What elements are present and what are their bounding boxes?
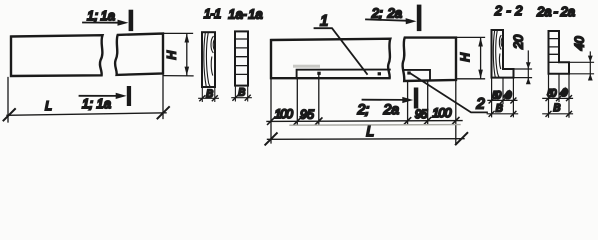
svg-text:2a: 2a xyxy=(560,4,575,19)
section 1-1 wood grain xyxy=(204,33,215,87)
beam 1 L dimension: corner ticks xyxy=(4,107,170,121)
svg-text:В: В xyxy=(238,86,245,98)
svg-text:L: L xyxy=(366,123,374,139)
section mark 2;2a bottom: bar xyxy=(414,88,419,109)
section 1a-1a outline xyxy=(235,31,248,85)
beam 2 L dimension: corner ticks xyxy=(265,133,467,145)
beam 2 L dimension: dim line xyxy=(268,138,465,141)
section 2a-2a dim 40: dim line xyxy=(589,52,591,77)
section 1a-1a lamination lines xyxy=(235,39,248,74)
beam 1 left part outline xyxy=(11,35,103,76)
section 2-2 outline (L shape) xyxy=(492,30,514,78)
section 2-2 wood grain xyxy=(493,31,502,77)
section mark 1;1a top: line xyxy=(83,22,121,24)
section mark 1;1a top: arrowhead xyxy=(118,20,129,26)
section mark 2;2a bottom: arrowhead xyxy=(402,97,413,103)
beam 1 L dimension: dim line xyxy=(7,113,166,116)
section 2a-2a dims 50/40: ticks xyxy=(546,96,572,101)
section mark 1;1a top: bar xyxy=(129,10,134,31)
beam 2 H dimension: arrowheads xyxy=(478,37,483,78)
beam 1 H dimension: extension lines xyxy=(164,33,193,76)
svg-text:40: 40 xyxy=(504,89,512,101)
svg-text:1a: 1a xyxy=(97,96,111,111)
section 2-2 dims 50/40: ticks xyxy=(489,98,516,103)
beam 2 rebate line right part xyxy=(404,70,430,80)
section 2-2 dims 50/40: dim line xyxy=(488,99,517,101)
callout 1: leader xyxy=(315,28,368,74)
section 1a-1a B dimension: extensions and dim line xyxy=(232,86,252,101)
beam 2 H dimension: extension lines xyxy=(457,37,485,78)
svg-text:-: - xyxy=(242,6,247,21)
svg-text:1-1: 1-1 xyxy=(204,6,222,21)
svg-text:1a: 1a xyxy=(101,8,115,23)
section 2a-2a B dimension: ticks xyxy=(546,111,572,116)
svg-text:H: H xyxy=(164,50,178,59)
svg-text:H: H xyxy=(458,53,472,62)
section 2a-2a dim 40: arrowheads xyxy=(588,56,593,81)
beam 2 dim row 100/95...95/100: dim line xyxy=(267,120,462,123)
beam 2 dim row ticks xyxy=(268,118,459,125)
beam 2 right part outline xyxy=(403,38,456,81)
svg-text:2;: 2; xyxy=(371,5,383,20)
svg-text:100: 100 xyxy=(432,106,451,120)
svg-text:50: 50 xyxy=(547,87,556,99)
nail dot a xyxy=(317,72,320,75)
section 2a-2a B dimension: dim line xyxy=(543,113,573,115)
beam 2 grey smudge xyxy=(293,65,320,68)
section mark 2;2a top: bar xyxy=(417,5,422,32)
callout 2: leader xyxy=(410,73,487,112)
nail dot c xyxy=(407,71,410,74)
section mark 2;2a top: arrowhead xyxy=(406,18,417,24)
svg-text:-: - xyxy=(554,4,559,19)
section mark 1;1a bottom: arrowhead xyxy=(116,93,127,99)
svg-text:1;: 1; xyxy=(82,96,93,111)
section 2a-2a dims 50/40: dim line xyxy=(543,97,573,99)
section 2-2 B dimension: ticks xyxy=(489,111,516,116)
svg-text:95: 95 xyxy=(415,107,428,121)
svg-text:L: L xyxy=(45,99,52,113)
svg-text:40: 40 xyxy=(572,36,586,50)
beam 2 lower dim row: extension lines xyxy=(271,75,456,143)
beam 2 rebate line left part xyxy=(297,70,390,79)
svg-text:50: 50 xyxy=(492,89,501,101)
nail dot b xyxy=(378,72,381,75)
svg-text:95: 95 xyxy=(300,107,314,121)
section 2-2 dims 50/40: extensions xyxy=(492,79,514,117)
section 2a-2a dims 50/40: extensions xyxy=(549,75,570,118)
section 2-2 B dimension: dim line xyxy=(487,113,517,115)
beam 1 right part outline xyxy=(115,34,163,75)
section 1a-1a B dimension: ticks xyxy=(233,95,250,100)
section 2a-2a outline (L shape) xyxy=(549,31,570,74)
section 1-1 B dimension: ticks xyxy=(200,96,218,101)
svg-text:20: 20 xyxy=(511,35,525,50)
beam 2 H dimension: dim line xyxy=(480,38,482,78)
svg-text:В: В xyxy=(553,102,560,114)
svg-text:1a: 1a xyxy=(248,6,262,21)
svg-text:2: 2 xyxy=(475,95,485,112)
svg-text:В: В xyxy=(496,103,503,115)
section 2a-2a lamination lines xyxy=(549,39,560,63)
section 1-1 B dimension: extensions and dim line xyxy=(199,88,219,102)
section 1-1 outline xyxy=(202,32,215,87)
beam 2 left part outline xyxy=(271,39,390,78)
beam 1 H dimension: dim line xyxy=(186,34,188,75)
svg-text:2a: 2a xyxy=(536,4,551,19)
beam 1 H dimension: arrowheads xyxy=(185,33,190,75)
svg-text:1a: 1a xyxy=(228,6,242,21)
svg-text:1;: 1; xyxy=(87,8,98,23)
section mark 1;1a bottom: bar xyxy=(127,86,131,106)
svg-text:40: 40 xyxy=(560,87,568,99)
svg-text:В: В xyxy=(206,88,213,100)
section 2a-2a dim 40: extension lines xyxy=(570,62,594,74)
section mark 2;2a top: line xyxy=(366,19,409,20)
svg-text:1: 1 xyxy=(320,13,328,30)
svg-text:2;: 2; xyxy=(357,101,370,117)
section mark 1;1a bottom: line xyxy=(80,95,120,97)
svg-text:2a: 2a xyxy=(383,101,400,117)
beam 2 dim row ghost line xyxy=(290,124,460,127)
section 2-2 dim 20: extension lines xyxy=(515,69,532,78)
section 2-2 dim 20: arrowheads xyxy=(526,62,531,84)
section mark 2;2a bottom: line xyxy=(363,99,406,101)
svg-text:2a: 2a xyxy=(387,5,402,20)
beam 1 L dimension: extension lines xyxy=(8,75,163,123)
svg-text:2-2: 2-2 xyxy=(494,3,523,18)
section 2-2 dim 20: dim line xyxy=(527,51,529,81)
svg-text:100: 100 xyxy=(274,107,293,121)
